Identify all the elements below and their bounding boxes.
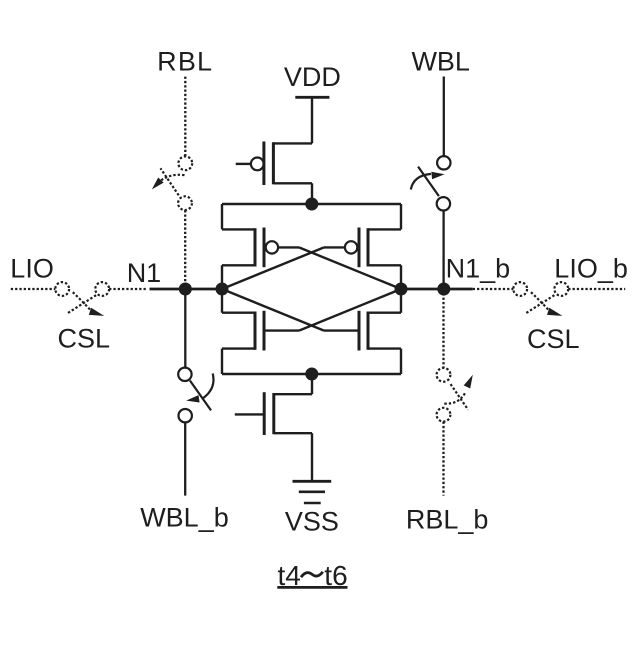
switch SW-RBL_b (dashed, open)	[437, 368, 473, 422]
wire N1_b to SW-RBL_b (dashed)	[442, 289, 444, 368]
caption tilde	[301, 572, 323, 577]
wire N1_b (solid)	[401, 288, 473, 291]
svg-text:VSS: VSS	[285, 507, 339, 537]
transistor M3 (PMOS right inverter)	[324, 228, 401, 268]
junction N1_b/WBL	[437, 283, 450, 296]
svg-text:VDD: VDD	[284, 62, 341, 92]
wire WBL vertical (solid)	[443, 77, 445, 157]
wire RBL to node N1 (dashed)	[184, 210, 186, 289]
wire LIO_b (dashed)	[568, 288, 625, 290]
switch SW-CSL-right (dashed, open)	[513, 282, 568, 316]
caption underline	[277, 586, 347, 589]
svg-text:WBL_b: WBL_b	[140, 503, 229, 533]
node N1 (latch left output)	[216, 283, 229, 296]
transistor M2 (NMOS left inverter)	[222, 311, 299, 351]
wire N1 (solid)	[150, 288, 223, 291]
wire to CSL right (dashed)	[473, 288, 514, 290]
wire RBL_b stub (dashed)	[442, 422, 444, 496]
transistor M5 (PMOS header)	[236, 142, 312, 205]
svg-text:CSL: CSL	[58, 324, 111, 354]
transistor M1 (PMOS left inverter)	[222, 228, 299, 268]
switch SW-WBL (solid, open)	[411, 156, 451, 210]
switch SW-RBL (dashed, open)	[152, 156, 192, 210]
junction N1/RBL	[179, 283, 192, 296]
wire VDD to PMOS M5	[311, 97, 313, 143]
wire N1 to SW-WBL_b (solid)	[184, 289, 186, 368]
node N1_b (latch right output)	[395, 283, 408, 296]
svg-text:LIO: LIO	[10, 254, 54, 284]
latch right outer wire segments	[400, 204, 402, 374]
latch left outer wire segments	[221, 204, 223, 374]
transistor M6 (NMOS footer)	[235, 392, 312, 435]
bottom rail wire	[222, 373, 401, 375]
wire WBL to node N1_b (solid)	[442, 211, 444, 290]
cross-coupling wire: right PMOS gate to node N1	[222, 247, 324, 289]
svg-text:LIO_b: LIO_b	[554, 254, 628, 284]
svg-text:WBL: WBL	[411, 46, 470, 76]
junction top rail	[305, 198, 318, 211]
cross-coupling wire: left NMOS gate to node N1_b	[299, 289, 401, 331]
svg-text:RBL: RBL	[157, 47, 213, 77]
wire M6 source to ground	[311, 433, 313, 481]
wire rail to NMOS M6	[311, 374, 313, 394]
svg-text:N1: N1	[127, 258, 162, 288]
top rail wire	[222, 203, 401, 205]
svg-text:CSL: CSL	[527, 324, 580, 354]
wire CSL to N1 (dashed)	[109, 288, 146, 290]
switch SW-CSL-left (dashed, open)	[55, 282, 109, 316]
ground symbol VSS	[293, 481, 332, 503]
transistor M4 (NMOS right inverter)	[324, 311, 401, 351]
wire WBL_b stub (solid)	[184, 422, 186, 495]
junction bottom rail	[305, 368, 318, 381]
switch SW-WBL_b (solid, open)	[178, 368, 213, 423]
wire LIO (dashed)	[11, 288, 56, 290]
cross-coupling wire: left PMOS gate to node N1_b	[299, 247, 401, 289]
svg-text:N1_b: N1_b	[446, 254, 511, 284]
svg-text:RBL_b: RBL_b	[406, 504, 489, 534]
VDD terminal bar	[295, 96, 329, 99]
wire RBL vertical (dashed)	[184, 77, 186, 157]
cross-coupling wire: right NMOS gate to node N1	[222, 289, 324, 331]
